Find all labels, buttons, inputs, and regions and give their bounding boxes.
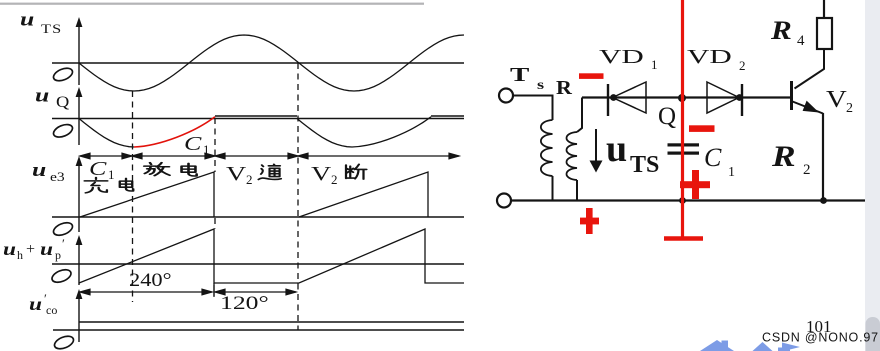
svg-text:2: 2: [739, 58, 746, 73]
axis u_TS horizontal: [52, 62, 464, 64]
svg-text:1: 1: [108, 167, 115, 182]
junction dot VD2: [736, 94, 743, 101]
svg-text:VD: VD: [599, 45, 644, 67]
u_e3 sawtooth: [80, 172, 428, 217]
label C1 segment1: [89, 158, 115, 182]
u_TS sine wave: [79, 35, 464, 91]
label V2 tong: [226, 163, 253, 187]
svg-text:V: V: [826, 85, 847, 112]
wire top-left to primary: [513, 96, 552, 121]
hanzi duan (off): [346, 164, 367, 179]
label VD1: [599, 45, 658, 72]
terminal bottom-left: [497, 194, 511, 208]
red minus near Ts: [579, 73, 604, 79]
label O5: [53, 334, 76, 351]
blue nav up arrow: [753, 342, 773, 351]
axis u_co horizontal: [53, 329, 464, 331]
red minus below Q: [689, 125, 715, 132]
capacitor wire lower: [682, 155, 684, 201]
label V2 duan: [311, 163, 338, 187]
hanzi fang (discharge): [144, 163, 170, 176]
transistor V2 base bar: [790, 81, 793, 110]
scrollbar thumb: [866, 317, 880, 351]
capacitor wire upper: [682, 98, 684, 144]
svg-text:C: C: [184, 133, 202, 155]
R4 top lead: [823, 0, 825, 18]
svg-text:+: +: [26, 241, 35, 258]
u_co signal line: [79, 321, 464, 323]
red ground bar: [664, 236, 703, 241]
label VD2: [687, 45, 746, 73]
dashed timing line x=215 lower: [214, 218, 216, 229]
red annotation line: [681, 0, 684, 240]
label O2: [52, 122, 75, 140]
secondary top lead: [577, 98, 582, 133]
dashed timing line x=215 upper: [214, 118, 216, 172]
u_TS reference arrow: [595, 129, 597, 163]
dimension row 1 y=156: [80, 153, 459, 159]
terminal top-left: [499, 89, 513, 103]
svg-text:1: 1: [728, 165, 735, 180]
dashed timing line x=298: [297, 63, 299, 330]
hanzi dian (electric) 1: [120, 178, 134, 191]
bottom rail: [511, 199, 866, 201]
svg-text:2: 2: [803, 162, 811, 178]
dimension row 2 y=292 : 240 and 120 spans: [80, 285, 296, 297]
svg-text:u: u: [20, 9, 34, 30]
u_h drop line through dimension row: [213, 283, 215, 296]
u_Q dip2: [297, 117, 431, 147]
svg-text:TS: TS: [630, 152, 659, 178]
junction dot cap bottom: [679, 197, 686, 204]
svg-text:R: R: [771, 140, 796, 173]
svg-text:u: u: [35, 85, 49, 106]
u_h+u_p sawtooth: [79, 229, 464, 283]
label O1: [52, 66, 75, 84]
u_Q flat segment 1: [215, 115, 297, 117]
label C1 circuit: [704, 143, 735, 180]
svg-text:C: C: [704, 143, 722, 172]
u_Q waveform black part: dip1: [79, 119, 134, 148]
blue nav house icon: [700, 340, 800, 351]
axis u_h vertical: [78, 239, 80, 285]
svg-text:R: R: [556, 76, 573, 99]
dashed timing line x=132: [132, 91, 134, 302]
capacitor C1 plates: [668, 143, 700, 146]
svg-text:h: h: [17, 248, 23, 262]
junction dot node Q: [678, 94, 686, 102]
junction dot emitter: [820, 197, 827, 204]
label V2 transistor: [826, 85, 853, 116]
red plus near C1: [692, 170, 699, 199]
svg-text:V: V: [311, 163, 332, 185]
label O4: [50, 267, 73, 285]
svg-text:1: 1: [651, 57, 658, 72]
svg-text:u: u: [3, 239, 16, 260]
label Ts: [510, 64, 573, 99]
label u_TS: [20, 9, 62, 37]
svg-text:C: C: [89, 158, 107, 180]
label u_e3: [32, 159, 65, 184]
label O3: [52, 220, 75, 238]
label R2: [771, 140, 811, 178]
axis arrowheads: [76, 17, 83, 299]
label u_Q: [35, 85, 70, 111]
svg-text:VD: VD: [687, 45, 732, 67]
secondary bottom lead: [576, 180, 578, 201]
svg-text:′: ′: [62, 236, 65, 251]
label u_co: [29, 291, 57, 317]
axis u_Q vertical: [78, 91, 80, 145]
diode VD2 cathode bar: [741, 84, 743, 116]
u_Q flat segment 2: [431, 115, 464, 117]
top rail: [582, 96, 791, 98]
hanzi chong (charge): [85, 178, 108, 193]
scrollbar track: [865, 0, 880, 351]
resistor R4 body: [817, 18, 832, 49]
svg-text:4: 4: [797, 33, 805, 49]
diode VD1 triangle: [613, 82, 647, 113]
svg-text:240°: 240°: [129, 270, 172, 291]
svg-text:p: p: [55, 248, 61, 262]
axis u_co vertical: [78, 293, 80, 342]
svg-text:e3: e3: [50, 170, 65, 184]
axis u_Q horizontal: [52, 118, 464, 120]
svg-text:1: 1: [203, 142, 210, 157]
transformer secondary winding: [567, 132, 578, 180]
label R4: [770, 16, 805, 49]
axis u_TS vertical: [78, 21, 80, 85]
junction dot VD1: [610, 94, 617, 101]
primary bottom lead: [552, 176, 554, 201]
emitter arrowhead: [803, 101, 819, 113]
label C1 on red curve: [184, 133, 210, 157]
label u_h+u_p: [3, 236, 65, 262]
diode VD1 cathode bar: [607, 84, 609, 116]
svg-text:CSDN @NONO.97: CSDN @NONO.97: [762, 331, 879, 345]
svg-text:120°: 120°: [220, 292, 269, 313]
top slide divider line: [0, 3, 424, 5]
axis u_h horizontal: [52, 263, 464, 265]
svg-text:2: 2: [846, 101, 853, 116]
u_Q red recovery curve C1 discharge: [134, 117, 215, 147]
svg-text:T: T: [510, 64, 530, 86]
svg-text:u: u: [606, 128, 627, 170]
red plus bottom-left: [586, 208, 593, 234]
axis u_e3 vertical: [78, 160, 80, 232]
hanzi dian (electric) 2: [182, 163, 197, 176]
svg-text:co: co: [46, 303, 57, 317]
transformer primary winding: [541, 120, 553, 176]
svg-text:u: u: [29, 294, 42, 315]
svg-text:Q: Q: [56, 93, 70, 111]
blue nav right arrow: [778, 343, 800, 351]
label u_TS circuit: [606, 128, 659, 178]
svg-text:V: V: [226, 163, 247, 185]
hanzi tong (on): [258, 164, 281, 179]
svg-text:2: 2: [331, 172, 338, 187]
transistor V2 emitter: [793, 102, 824, 114]
svg-text:u: u: [40, 239, 53, 260]
emitter lead down: [822, 113, 824, 201]
CJKGLYPHS: [85, 163, 367, 193]
diode VD2 triangle: [707, 82, 739, 113]
R4 bottom lead / collector: [795, 49, 825, 89]
svg-text:2: 2: [246, 172, 253, 187]
svg-text:Q: Q: [658, 103, 676, 130]
svg-text:s: s: [537, 77, 544, 93]
svg-text:u: u: [32, 159, 46, 180]
svg-text:R: R: [770, 16, 792, 45]
svg-text:TS: TS: [41, 22, 62, 36]
axis u_e3 horizontal: [52, 216, 464, 218]
